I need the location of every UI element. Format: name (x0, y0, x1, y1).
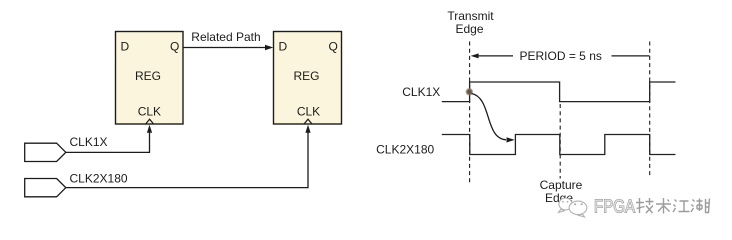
watermark text 术 (hand-drawn strokes) (656, 198, 671, 214)
svg-text:CLK1X: CLK1X (402, 85, 440, 99)
svg-text:CLK: CLK (297, 105, 320, 119)
svg-text:CLK1X: CLK1X (70, 135, 108, 149)
svg-text:CLK: CLK (138, 105, 161, 119)
svg-text:Capture: Capture (540, 178, 583, 192)
label Capture Edge (540, 178, 583, 205)
svg-text:CLK2X180: CLK2X180 (376, 143, 434, 157)
register REG1 (116, 32, 184, 125)
wire Q1 to D2 (related path) (183, 45, 273, 50)
watermark icon (chat bubbles) (559, 198, 587, 217)
watermark text 技 (hand-drawn strokes) (636, 198, 654, 213)
arrow transmit to capture (472, 94, 515, 143)
svg-text:Q: Q (329, 40, 338, 54)
wire CLK2X180 to REG2 CLK (66, 125, 311, 188)
svg-text:Edge: Edge (455, 22, 483, 36)
svg-text:Related Path: Related Path (191, 30, 260, 44)
register REG2 (274, 32, 342, 125)
svg-text:CLK2X180: CLK2X180 (70, 171, 128, 185)
clock input notch (REG2) (304, 119, 312, 124)
svg-text:Q: Q (170, 40, 179, 54)
waveform CLK1X (442, 82, 676, 102)
svg-text:D: D (279, 40, 288, 54)
svg-text:FPGA: FPGA (594, 197, 635, 217)
wire CLK1X to REG1 CLK (66, 125, 152, 153)
dimension arrow PERIOD (471, 53, 650, 58)
input port CLK1X (25, 143, 66, 161)
capture edge dashed line (559, 104, 561, 179)
svg-text:PERIOD = 5 ns: PERIOD = 5 ns (520, 49, 602, 63)
label Transmit Edge (447, 9, 494, 36)
clock input notch (REG1) (146, 119, 154, 124)
svg-text:D: D (121, 40, 130, 54)
transmit edge dashed line (469, 42, 471, 185)
node transmit launch dot (465, 88, 473, 96)
svg-text:REG: REG (135, 69, 161, 83)
input port CLK2X180 (25, 179, 66, 197)
svg-text:REG: REG (293, 69, 319, 83)
waveform CLK2X180 (442, 135, 676, 155)
watermark text 湖 (hand-drawn strokes) (691, 199, 710, 213)
period end dashed line (649, 42, 651, 177)
watermark text 江 (hand-drawn strokes) (673, 200, 690, 213)
